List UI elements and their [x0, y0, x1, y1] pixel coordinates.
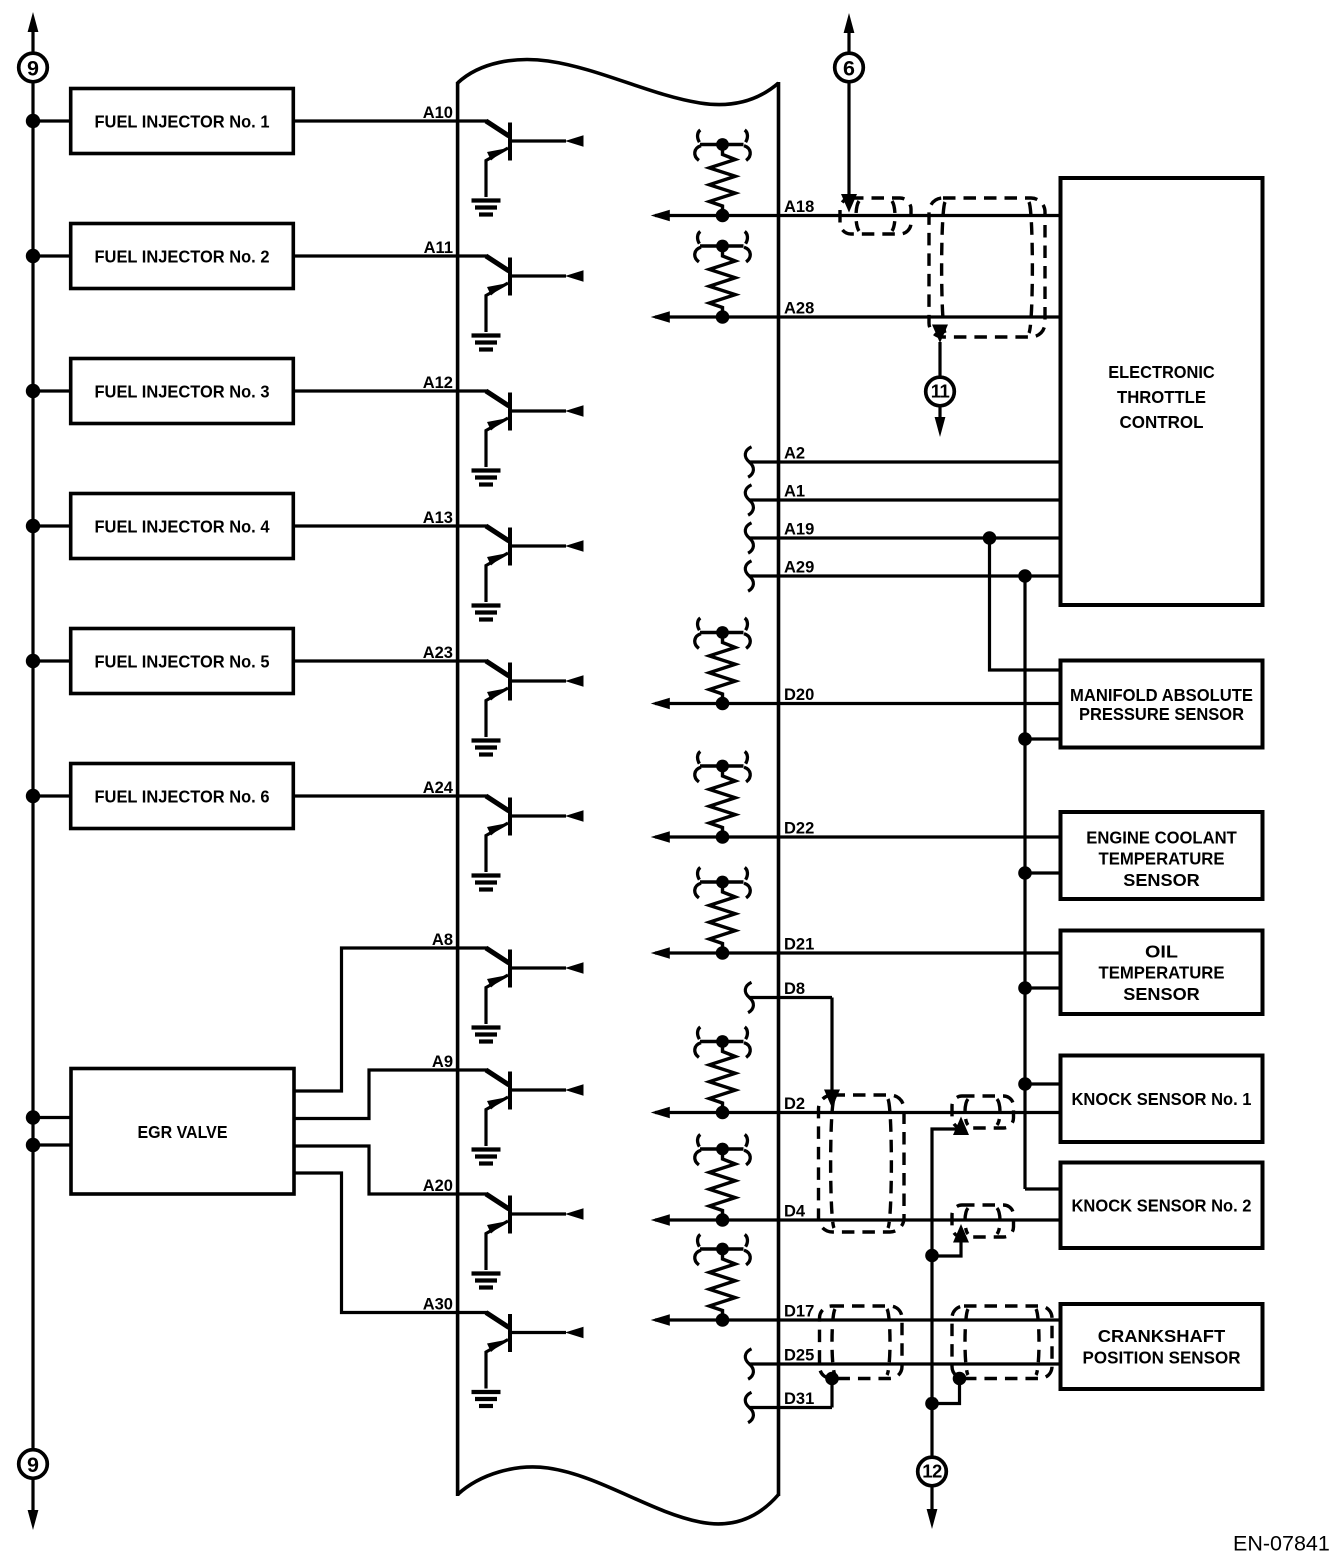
- junction dot resistor R8 top: [716, 1243, 729, 1256]
- svg-text:A30: A30: [423, 1296, 453, 1314]
- wire D22: [655, 835, 1061, 838]
- arrow onto A18 shield: [841, 194, 857, 213]
- wire A24 injector to ECM: [293, 794, 487, 797]
- shield capsule (large) around D2/D4 pair: [819, 1095, 905, 1232]
- wire A12 injector to ECM: [293, 389, 487, 392]
- svg-text:FUEL INJECTOR No. 4: FUEL INJECTOR No. 4: [95, 517, 270, 537]
- junction dot right shield/drain bus: [953, 1372, 967, 1386]
- svg-text:D4: D4: [784, 1203, 806, 1221]
- ECM torn bottom edge: [458, 1467, 779, 1524]
- junction dot resistor R5 bottom: [716, 946, 730, 960]
- ground (Q5 emitter): [472, 741, 501, 755]
- svg-text:A29: A29: [784, 559, 814, 577]
- svg-text:A23: A23: [423, 644, 453, 662]
- ground (Q1 emitter): [472, 201, 501, 215]
- resistor R4 (pull-up): [700, 766, 744, 837]
- wire-break squiggle on D25: [745, 1349, 753, 1379]
- transistor Q10: [486, 1313, 584, 1389]
- junction dot bus/injector 4: [26, 519, 40, 533]
- shield capsule (small) on A18: [840, 198, 911, 234]
- arrow (left continuation) on A28: [651, 311, 670, 322]
- svg-text:12: 12: [922, 1461, 942, 1482]
- junction dot KNOCK1 ground: [1018, 1077, 1032, 1091]
- arrow below node 12: [927, 1509, 938, 1529]
- svg-text:PRESSURE SENSOR: PRESSURE SENSOR: [1079, 704, 1244, 724]
- shield capsule (large) around A18/A28 pair: [929, 198, 1045, 337]
- fuel injector box No.5: [71, 629, 294, 694]
- resistor R1 (pull-up): [700, 145, 744, 216]
- shield hooks at resistor R3 top: [695, 618, 751, 648]
- ground (Q8 emitter): [472, 1150, 501, 1164]
- shield drain arrow below A28: [932, 325, 948, 344]
- svg-text:SENSOR: SENSOR: [1123, 870, 1200, 890]
- wire D8 to D2/D4 shield: [830, 998, 833, 1094]
- wire bus to FUEL INJECTOR No.1: [33, 119, 71, 122]
- wire drain bus to node 12: [930, 1404, 933, 1457]
- junction dot bus/injector 2: [26, 249, 40, 263]
- svg-text:FUEL INJECTOR No. 2: FUEL INJECTOR No. 2: [95, 247, 270, 267]
- junction dot MAP ground: [1018, 732, 1032, 746]
- resistor R8 (pull-up): [700, 1249, 744, 1320]
- arrow below node 11: [935, 417, 946, 437]
- ENGINE COOLANT TEMPERATURE SENSOR box: [1061, 812, 1263, 899]
- wire A11 injector to ECM: [293, 254, 487, 257]
- fuel injector box No.4: [71, 494, 294, 559]
- svg-text:KNOCK SENSOR No. 1: KNOCK SENSOR No. 1: [1072, 1089, 1252, 1109]
- junction dot resistor R2 top: [716, 240, 729, 253]
- fuel injector box No.1: [71, 89, 294, 154]
- wire EGR pin to A30: [294, 1173, 487, 1313]
- svg-text:CRANKSHAFT: CRANKSHAFT: [1098, 1326, 1226, 1346]
- OIL TEMPERATURE SENSOR box: [1061, 931, 1263, 1015]
- svg-text:A24: A24: [423, 779, 454, 797]
- resistor R2 (pull-up): [700, 246, 744, 317]
- resistor R5 (pull-up): [700, 882, 744, 953]
- svg-text:D21: D21: [784, 936, 814, 954]
- junction dot resistor R6 top: [716, 1035, 729, 1048]
- ECM right border: [777, 82, 781, 1496]
- junction dot OIL ground: [1018, 981, 1032, 995]
- node 9 (bottom): [19, 1450, 48, 1479]
- junction dot resistor R4 top: [716, 760, 729, 773]
- wire bus to FUEL INJECTOR No.5: [33, 659, 71, 662]
- svg-text:A20: A20: [423, 1177, 453, 1195]
- junction dot bus/injector 5: [26, 654, 40, 668]
- CRANKSHAFT POSITION SENSOR box: [1061, 1304, 1263, 1389]
- svg-text:A11: A11: [424, 239, 453, 257]
- wire A28: [655, 315, 1061, 318]
- svg-text:A2: A2: [784, 445, 805, 463]
- svg-text:EGR VALVE: EGR VALVE: [138, 1122, 228, 1142]
- wire A18: [655, 214, 1061, 217]
- power bus arrow (top): [28, 12, 39, 32]
- junction dot drain bus bottom: [925, 1397, 939, 1411]
- svg-text:D25: D25: [784, 1347, 814, 1365]
- wire EGR pin to A9: [294, 1070, 487, 1119]
- wire D2: [655, 1111, 1061, 1114]
- resistor R3 (pull-up): [700, 633, 744, 704]
- shield hooks at resistor R6 top: [695, 1027, 751, 1057]
- transistor Q2: [486, 256, 584, 332]
- wire bus to FUEL INJECTOR No.2: [33, 254, 71, 257]
- wire bus to MAP sensor ground pin: [1025, 737, 1061, 740]
- arrow (left continuation) on D17: [651, 1314, 670, 1325]
- svg-text:9: 9: [27, 56, 39, 80]
- wire bus to FUEL INJECTOR No.4: [33, 524, 71, 527]
- EGR VALVE box: [71, 1069, 294, 1195]
- node 11: [926, 377, 955, 406]
- wire-break squiggle on A1: [745, 485, 753, 515]
- ECM torn top edge: [458, 60, 779, 105]
- power bus arrow (bottom): [28, 1510, 39, 1530]
- wire A19: [749, 536, 1061, 539]
- wire D21: [655, 951, 1061, 954]
- wire D2 shield drain: [932, 1129, 959, 1404]
- shield hooks at resistor R5 top: [695, 868, 751, 898]
- shield capsule (small) on D2: [952, 1096, 1014, 1128]
- junction dot bus/injector 1: [26, 114, 40, 128]
- wire: main power bus: [31, 83, 34, 1450]
- transistor Q5: [486, 661, 584, 737]
- junction dot resistor R3 bottom: [716, 697, 730, 711]
- ELECTRONIC THROTTLE CONTROL box: [1061, 178, 1263, 605]
- svg-text:KNOCK SENSOR No. 2: KNOCK SENSOR No. 2: [1072, 1196, 1252, 1216]
- svg-text:A19: A19: [784, 521, 814, 539]
- svg-text:ENGINE COOLANT: ENGINE COOLANT: [1086, 827, 1237, 847]
- junction dot resistor R1 top: [716, 138, 729, 151]
- svg-text:11: 11: [931, 381, 950, 402]
- junction dot bus/injector 6: [26, 789, 40, 803]
- arrow D8 onto shield: [824, 1090, 840, 1109]
- transistor Q3: [486, 391, 584, 467]
- svg-text:ELECTRONIC: ELECTRONIC: [1108, 362, 1215, 382]
- svg-text:D2: D2: [784, 1095, 805, 1113]
- wire A10 injector to ECM: [293, 119, 487, 122]
- junction dot bus/EGR 2: [26, 1138, 40, 1152]
- wire node 6 to A18 shield: [847, 83, 850, 197]
- arrow (left continuation) on D2: [651, 1107, 670, 1118]
- shield hooks at resistor R8 top: [695, 1235, 751, 1265]
- wire EGR pin to A20: [294, 1146, 487, 1194]
- svg-text:TEMPERATURE: TEMPERATURE: [1099, 849, 1225, 869]
- node 6 arrow (top): [844, 13, 855, 33]
- wire bus to KNOCK1 pin: [1025, 1082, 1061, 1085]
- junction dot bus/EGR 1: [26, 1110, 40, 1124]
- wire D8: [749, 996, 832, 999]
- arrow D4 shield drain: [953, 1224, 969, 1243]
- svg-text:THROTTLE: THROTTLE: [1117, 387, 1206, 407]
- arrow D2 shield drain: [953, 1117, 969, 1136]
- wire D31 up to shield: [830, 1379, 833, 1408]
- svg-text:D8: D8: [784, 980, 805, 998]
- svg-text:OIL: OIL: [1145, 941, 1178, 961]
- wire below node 12: [930, 1487, 933, 1514]
- arrow (left continuation) on D4: [651, 1214, 670, 1225]
- ground (Q2 emitter): [472, 336, 501, 350]
- junction dot resistor R3 top: [716, 626, 729, 639]
- svg-text:CONTROL: CONTROL: [1120, 412, 1204, 432]
- node 12: [918, 1457, 947, 1486]
- transistor Q7: [486, 948, 584, 1024]
- svg-text:SENSOR: SENSOR: [1123, 984, 1200, 1004]
- svg-text:FUEL INJECTOR No. 3: FUEL INJECTOR No. 3: [95, 382, 270, 402]
- KNOCK SENSOR No.2 box: [1061, 1163, 1263, 1249]
- junction dot resistor R7 top: [716, 1143, 729, 1156]
- junction dot resistor R5 top: [716, 876, 729, 889]
- svg-text:A18: A18: [784, 198, 814, 216]
- svg-text:FUEL INJECTOR No. 5: FUEL INJECTOR No. 5: [95, 652, 270, 672]
- MANIFOLD ABSOLUTE PRESSURE SENSOR box: [1061, 661, 1263, 748]
- junction dot on A19: [983, 531, 997, 545]
- wire-break squiggle on A19: [745, 523, 753, 553]
- wire shield to node 11: [938, 342, 941, 377]
- svg-text:D20: D20: [784, 686, 814, 704]
- transistor Q6: [486, 796, 584, 872]
- wire bus to FUEL INJECTOR No.6: [33, 794, 71, 797]
- wire: bus bottom segment: [31, 1479, 34, 1514]
- node 6: [835, 53, 864, 82]
- ground (Q7 emitter): [472, 1028, 501, 1042]
- svg-text:A13: A13: [423, 509, 453, 527]
- svg-text:FUEL INJECTOR No. 6: FUEL INJECTOR No. 6: [95, 787, 270, 807]
- wire-break squiggle on A29: [745, 561, 753, 591]
- arrow (left continuation) on D22: [651, 831, 670, 842]
- node 9 (top): [19, 53, 48, 82]
- svg-text:MANIFOLD ABSOLUTE: MANIFOLD ABSOLUTE: [1070, 685, 1253, 705]
- wire to node 6: [847, 27, 850, 53]
- wire A19 branch to MAP sensor: [990, 538, 1061, 670]
- shield hooks at resistor R7 top: [695, 1135, 751, 1165]
- KNOCK SENSOR No.1 box: [1061, 1056, 1263, 1143]
- transistor Q4: [486, 526, 584, 602]
- shield hooks at resistor R2 top: [695, 232, 751, 262]
- junction dot resistor R2 bottom: [716, 310, 730, 324]
- shield capsule (right) around D17/D25: [952, 1306, 1052, 1379]
- svg-text:A8: A8: [432, 931, 453, 949]
- wire A13 injector to ECM: [293, 524, 487, 527]
- svg-text:A10: A10: [423, 104, 453, 122]
- fuel injector box No.6: [71, 764, 294, 829]
- wire bus to OIL sensor ground pin: [1025, 986, 1061, 989]
- wire A29: [749, 574, 1061, 577]
- svg-text:6: 6: [843, 56, 855, 80]
- junction dot resistor R7 bottom: [716, 1213, 730, 1227]
- wire-break squiggle on A2: [745, 447, 753, 477]
- svg-text:EN-07841: EN-07841: [1233, 1532, 1330, 1556]
- wire D25: [749, 1362, 1061, 1365]
- junction dot on A29: [1018, 569, 1032, 583]
- transistor Q9: [486, 1194, 584, 1270]
- junction dot D31/left shield: [825, 1372, 839, 1386]
- svg-text:A9: A9: [432, 1053, 453, 1071]
- wire A2: [749, 460, 1061, 463]
- svg-text:D31: D31: [784, 1390, 814, 1408]
- shield hooks at resistor R1 top: [695, 130, 751, 160]
- shield capsule (small) on D4: [952, 1205, 1014, 1237]
- fuel injector box No.3: [71, 359, 294, 424]
- wire bus to KNOCK2 pin: [1025, 1187, 1061, 1190]
- wire-break squiggle on D31: [745, 1392, 753, 1422]
- svg-text:POSITION SENSOR: POSITION SENSOR: [1083, 1348, 1241, 1368]
- junction dot resistor R8 bottom: [716, 1313, 730, 1327]
- transistor Q8: [486, 1070, 584, 1146]
- wire D20: [655, 702, 1061, 705]
- wire EGR pin to A8: [294, 948, 487, 1091]
- arrow (left continuation) on D21: [651, 947, 670, 958]
- junction dot drain bus/D4: [925, 1249, 939, 1263]
- resistor R6 (pull-up): [700, 1042, 744, 1113]
- arrow (left continuation) on A18: [651, 210, 670, 221]
- fuel injector box No.2: [71, 224, 294, 289]
- ground (Q3 emitter): [472, 471, 501, 485]
- svg-text:A28: A28: [784, 300, 814, 318]
- wire bus to FUEL INJECTOR No.3: [33, 389, 71, 392]
- junction dot bus/injector 3: [26, 384, 40, 398]
- wire D17: [655, 1318, 1061, 1321]
- svg-text:D17: D17: [784, 1303, 814, 1321]
- wire-break squiggle on D8: [745, 982, 753, 1012]
- transistor Q1: [486, 121, 584, 197]
- junction dot resistor R4 bottom: [716, 830, 730, 844]
- ground (Q9 emitter): [472, 1274, 501, 1288]
- wire A23 injector to ECM: [293, 659, 487, 662]
- svg-text:FUEL INJECTOR No. 1: FUEL INJECTOR No. 1: [95, 112, 270, 132]
- ground (Q4 emitter): [472, 606, 501, 620]
- wire sensor ground bus (A29 down): [1023, 576, 1026, 1189]
- wire D4: [655, 1218, 1061, 1221]
- junction dot ECT ground: [1018, 866, 1032, 880]
- wire bus to ECT sensor ground pin: [1025, 871, 1061, 874]
- resistor R7 (pull-up): [700, 1149, 744, 1220]
- wire A1: [749, 498, 1061, 501]
- shield capsule (left) around D17/D25: [820, 1306, 903, 1379]
- junction dot resistor R1 bottom: [716, 209, 730, 223]
- wire D31: [749, 1406, 832, 1409]
- svg-text:9: 9: [27, 1453, 39, 1477]
- shield hooks at resistor R4 top: [695, 752, 751, 782]
- ground (Q10 emitter): [472, 1392, 501, 1406]
- wire node 11 down: [938, 407, 941, 422]
- svg-text:A1: A1: [784, 483, 805, 501]
- wire: bus top segment: [31, 26, 34, 53]
- svg-text:D22: D22: [784, 820, 814, 838]
- arrow (left continuation) on D20: [651, 698, 670, 709]
- wire bus to EGR pin2: [33, 1143, 71, 1146]
- junction dot resistor R6 bottom: [716, 1106, 730, 1120]
- wire D4 shield drain: [932, 1240, 961, 1256]
- wire bus to EGR pin1: [33, 1116, 71, 1119]
- svg-text:A12: A12: [423, 374, 453, 392]
- ground (Q6 emitter): [472, 876, 501, 890]
- ECM left border: [456, 82, 460, 1496]
- wire drain bus to right shield: [932, 1379, 960, 1404]
- svg-text:TEMPERATURE: TEMPERATURE: [1099, 963, 1225, 983]
